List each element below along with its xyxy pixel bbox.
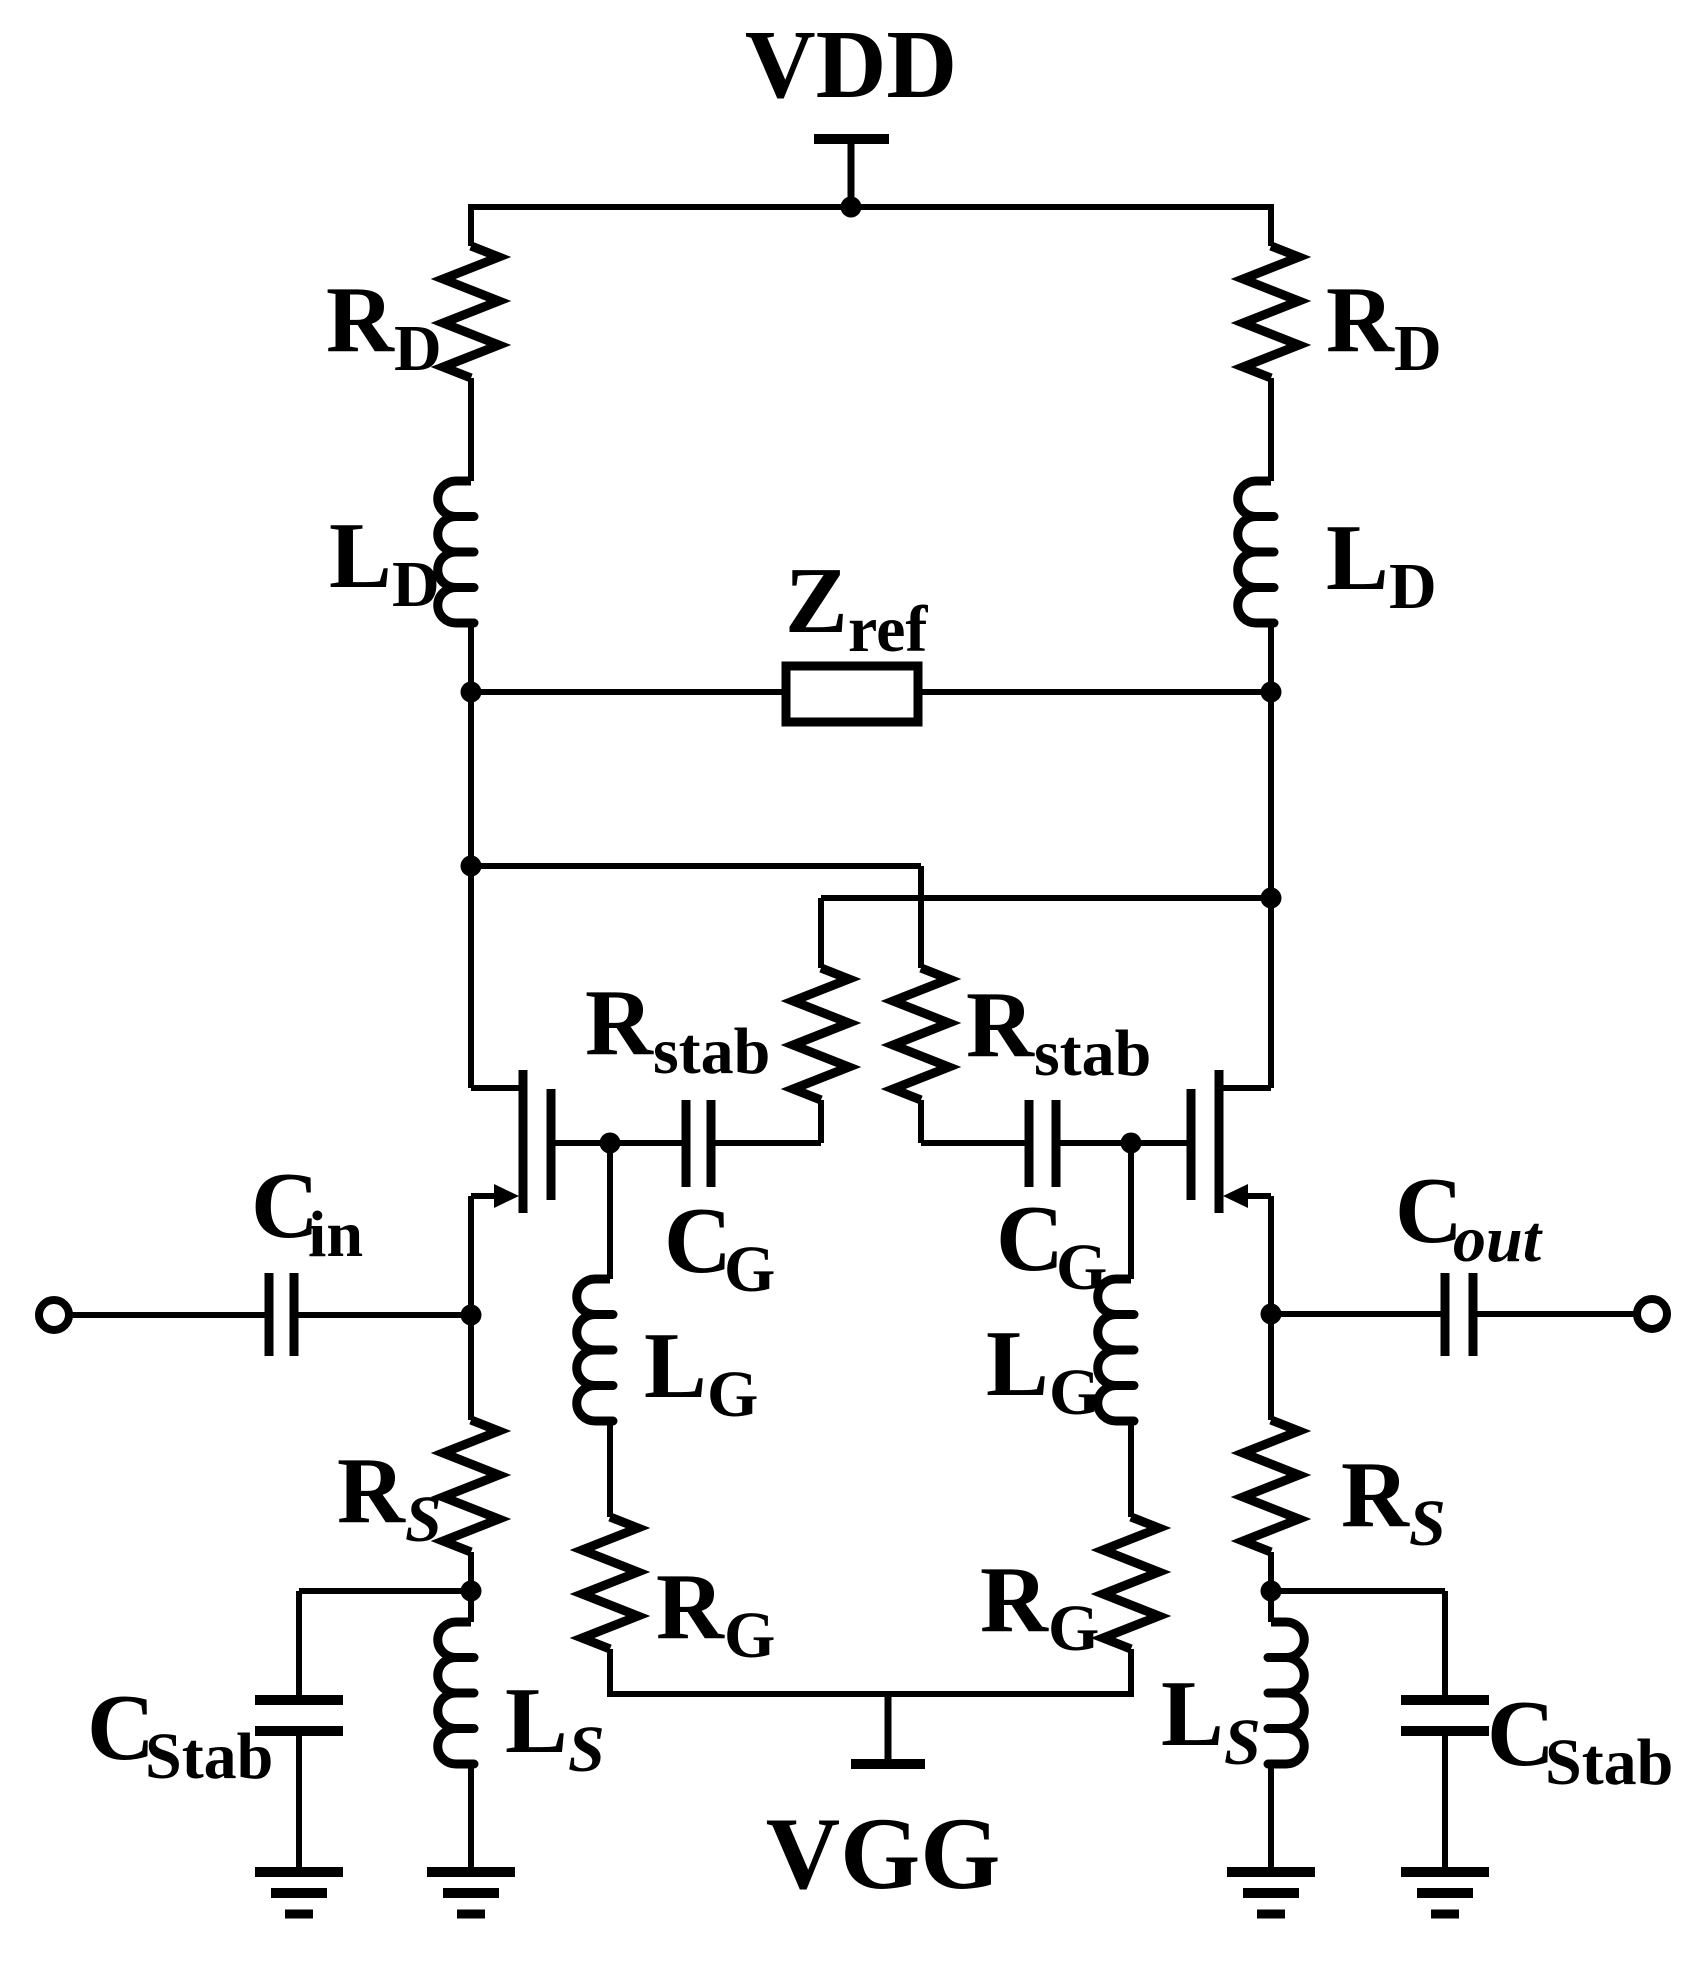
svg-text:S: S: [1409, 1487, 1446, 1560]
svg-text:S: S: [568, 1713, 605, 1786]
svg-text:S: S: [1224, 1706, 1261, 1779]
svg-text:G: G: [1056, 1231, 1107, 1304]
svg-text:R: R: [966, 973, 1035, 1077]
svg-text:L: L: [644, 1314, 707, 1418]
svg-text:G: G: [724, 1599, 775, 1672]
svg-text:out: out: [1453, 1203, 1543, 1276]
svg-text:VDD: VDD: [745, 11, 957, 119]
svg-text:L: L: [986, 1312, 1049, 1416]
svg-text:VGG: VGG: [766, 1797, 1001, 1911]
svg-text:G: G: [1049, 1356, 1100, 1429]
svg-text:C: C: [664, 1189, 732, 1293]
svg-text:R: R: [337, 1439, 406, 1543]
svg-text:ref: ref: [848, 593, 928, 666]
svg-text:D: D: [392, 548, 440, 621]
svg-text:Z: Z: [785, 549, 848, 653]
svg-text:C: C: [996, 1187, 1064, 1291]
svg-text:G: G: [1048, 1592, 1099, 1665]
svg-text:R: R: [656, 1555, 725, 1659]
svg-text:G: G: [724, 1233, 775, 1306]
svg-text:D: D: [1389, 550, 1437, 623]
svg-text:Stab: Stab: [145, 1720, 273, 1793]
svg-text:in: in: [308, 1198, 363, 1271]
svg-text:R: R: [1326, 268, 1395, 372]
svg-text:R: R: [326, 268, 395, 372]
svg-text:L: L: [505, 1669, 568, 1773]
svg-text:stab: stab: [1034, 1017, 1151, 1090]
svg-text:R: R: [980, 1548, 1049, 1652]
svg-text:R: R: [1341, 1443, 1410, 1547]
svg-text:L: L: [329, 504, 392, 608]
svg-text:D: D: [394, 312, 442, 385]
svg-text:G: G: [707, 1358, 758, 1431]
svg-text:S: S: [405, 1483, 442, 1556]
svg-text:R: R: [585, 971, 654, 1075]
svg-text:stab: stab: [653, 1015, 770, 1088]
svg-text:D: D: [1394, 312, 1442, 385]
svg-text:L: L: [1326, 506, 1389, 610]
svg-text:Stab: Stab: [1545, 1726, 1673, 1799]
svg-text:L: L: [1161, 1662, 1224, 1766]
